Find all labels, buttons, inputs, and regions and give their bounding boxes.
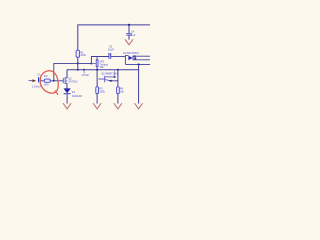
svg-text:(04): (04) [44,83,49,87]
node top rail C4 junction [128,24,130,26]
svg-text:470nF: 470nF [82,73,90,77]
ground arrow under R4 [114,104,122,109]
svg-text:2N7002: 2N7002 [68,79,78,83]
wire R2 to gate [50,80,63,82]
annotation red tail [55,90,58,94]
wire gate link horizontal [54,63,92,80]
capacitor C3 [108,44,114,59]
node D2 pin2 [134,58,136,60]
node Q2 emitter [110,80,112,82]
svg-text:D2 BAT54SW: D2 BAT54SW [123,52,139,55]
wire R4 riser [117,70,119,87]
wire VR1 wiper stub [91,63,95,65]
node VR1 wiper junction [90,63,92,65]
svg-text:10uF: 10uF [108,47,114,51]
ground arrow under R3 [93,104,101,109]
capacitor C4 [126,29,136,36]
node D2 pin1 [134,55,136,57]
svg-text:10k: 10k [120,89,125,93]
wire C3 right lead [111,56,125,58]
ground arrow under D1 [63,104,71,109]
ground arrow under C4 [125,40,133,45]
wire C1 to R2 [41,80,45,82]
wire R4 to ground [117,94,119,104]
wire C4 bottom lead [128,36,130,40]
wire Q2 emitter link [111,80,118,82]
wire D1 to ground [66,94,68,103]
node Q2 collector [114,76,116,78]
svg-text:Q2 MMBT3904: Q2 MMBT3904 [101,73,119,76]
svg-text:1N4148: 1N4148 [72,94,83,98]
resistor R2 [44,74,51,86]
input port arrow [32,79,36,82]
wire D2 pin link [134,56,136,60]
diode D1 [64,88,83,97]
resistor R1 [76,50,87,57]
resistor R4 [117,87,125,94]
transistor Q1 nmos [63,77,78,85]
capacitor C1 [32,72,42,88]
wire VR1 top lead [96,57,98,60]
transistor Q2 [99,76,115,83]
wire VR1 wiper riser [91,57,108,64]
annotation red circle around R2 [40,71,58,93]
wire mid rail [67,69,139,71]
diode D2 [125,55,133,64]
ground arrow right column [135,104,143,109]
wire C4 top lead [128,25,130,33]
wire C2 stub [83,70,85,74]
wire top rail VCC [78,25,151,50]
svg-text:10k: 10k [99,65,104,69]
wire Q1 source to D1 [66,83,68,88]
wire input stub [29,80,33,82]
node R1 mid-rail junction [77,69,79,71]
wire VR1 bottom to rail [96,67,98,70]
node mid rail R4 junction [117,69,119,71]
node gate link to R2 wire [53,80,55,82]
node R1-gate link junction [77,62,79,64]
wire R1 bottom to mid rail [77,57,79,69]
wire Q1 drain to mid rail [66,70,68,78]
trimmer VR1 [95,60,109,69]
wire R3 riser [96,70,98,87]
svg-text:100k: 100k [99,89,105,93]
node D2 bottom rail drop [138,63,140,65]
wire right column to ground [138,64,140,103]
svg-text:C4: C4 [131,29,135,33]
wire D2 out2 [134,59,152,61]
svg-text:R2: R2 [44,74,48,78]
wire D2 out1 [134,55,152,57]
wire D2 bottom out [125,63,151,65]
node VR1 rail junction [96,69,98,71]
svg-text:100k: 100k [80,53,86,57]
wire R3 to ground [96,94,98,104]
node mid rail C2 junction [83,69,85,71]
svg-text:1uF: 1uF [131,33,136,37]
resistor R3 [96,87,106,94]
wire Q2 collector riser [114,70,116,77]
